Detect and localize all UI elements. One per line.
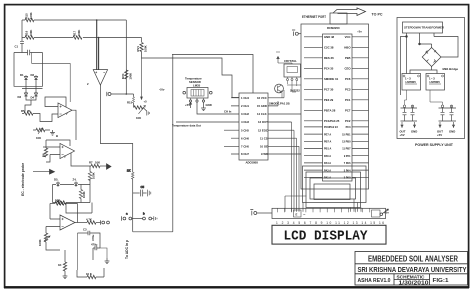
resistor R5 (U2 input) [22, 113, 24, 115]
svg-text:10 OE: 10 OE [260, 145, 268, 149]
svg-text:R15: R15 [25, 13, 29, 19]
svg-text:470u: 470u [91, 234, 95, 241]
svg-text:PA1 A: PA1 A [324, 177, 331, 180]
wire right bus vertical [125, 20, 127, 94]
op-amp U3 [60, 144, 75, 159]
svg-text:PC0/PA2 23: PC0/PA2 23 [324, 126, 338, 129]
svg-text:4 CH3: 4 CH3 [241, 120, 249, 124]
ground G3 [106, 258, 108, 261]
svg-text:E: E [296, 213, 298, 217]
bridge rectifier BR1 [422, 48, 441, 67]
svg-text:100K: 100K [38, 239, 42, 246]
svg-text:2K: 2K [27, 109, 31, 113]
regulator VR1 [402, 74, 421, 91]
svg-text:15 PB1: 15 PB1 [342, 133, 351, 136]
svg-text:13 PB0: 13 PB0 [342, 141, 351, 144]
svg-text:Z4: Z4 [73, 178, 77, 182]
svg-text:C2C 38: C2C 38 [324, 46, 334, 50]
wire left big bus [125, 19, 127, 21]
svg-text:To ADC In p: To ADC In p [125, 240, 129, 259]
power supply unit box [397, 18, 465, 139]
wire U4 inputs [46, 219, 60, 227]
bottom rail with resistor R10 [53, 202, 91, 204]
svg-text:D4: D4 [31, 96, 35, 100]
op-amp U2 [58, 103, 72, 118]
wire U3 output down [71, 153, 91, 166]
svg-text:13 OUT: 13 OUT [258, 120, 268, 124]
temp sensor LM35 body [187, 88, 208, 99]
bus loop 3 [310, 178, 356, 199]
svg-text:100K: 100K [129, 73, 133, 80]
strip ticks [278, 208, 370, 212]
svg-text:PB7 A: PB7 A [324, 141, 331, 144]
svg-text:C5: C5 [141, 185, 145, 189]
GND at LM35 [203, 102, 205, 108]
svg-text:R6: R6 [42, 153, 46, 157]
svg-text:10 K: 10 K [86, 272, 92, 276]
svg-text:R5: R5 [21, 109, 25, 113]
wire probe vertical [21, 20, 23, 41]
svg-text:PC7 30: PC7 30 [324, 88, 334, 92]
wire top row to right bus [22, 19, 126, 21]
resistor R7 [91, 164, 100, 167]
EC probe arrow [33, 171, 50, 173]
svg-text:ADC0808: ADC0808 [246, 161, 259, 165]
svg-text:+5V: +5V [437, 133, 442, 137]
svg-text:3 CH2: 3 CH2 [241, 112, 249, 116]
svg-text:4.7K: 4.7K [86, 218, 92, 222]
zener Z1 [75, 182, 78, 187]
resistor R17 (vertical in column) [131, 172, 134, 179]
svg-text:1 2 3 4 5 6 7 8 9 10 11 12 13: 1 2 3 4 5 6 7 8 9 10 11 12 13 14 15 16 [276, 221, 384, 225]
ADC left stubs [224, 98, 239, 154]
svg-text:7 CH0: 7 CH0 [241, 145, 249, 149]
RCM2200 module box [301, 24, 369, 189]
svg-text:100K: 100K [29, 30, 33, 37]
svg-text:8 CH7: 8 CH7 [241, 152, 249, 156]
svg-text:PE7 A: PE7 A [324, 133, 331, 136]
svg-text:SCHEMATIC: SCHEMATIC [397, 275, 426, 280]
svg-text:1K: 1K [58, 263, 62, 267]
svg-text:100K: 100K [82, 191, 86, 198]
svg-text:2: 2 [87, 82, 89, 86]
capacitor C3 [78, 232, 89, 234]
resistor R13 (1K vertical) [64, 250, 66, 262]
+5V arrow at LM35 [189, 102, 191, 108]
svg-text:RES 36: RES 36 [324, 56, 334, 60]
svg-text:5: 5 [64, 155, 66, 159]
svg-text:+5: +5 [144, 100, 148, 104]
svg-text:PE3 29: PE3 29 [324, 98, 334, 102]
svg-text:R16: R16 [25, 30, 29, 36]
svg-text:PA3 A: PA3 A [324, 169, 331, 172]
svg-text:10K: 10K [136, 116, 141, 120]
svg-text:LCD DISPLAY: LCD DISPLAY [284, 229, 369, 244]
svg-text:POWER SUPPLY UNIT: POWER SUPPLY UNIT [415, 143, 454, 147]
svg-text:⌐5v: ⌐5v [357, 30, 362, 34]
wire step down [66, 203, 92, 214]
svg-text:GND: GND [411, 130, 417, 134]
svg-text:100K: 100K [29, 12, 33, 19]
capacitor C1 [20, 41, 24, 43]
resistor R3 (second row right) [73, 36, 82, 39]
svg-text:D5: D5 [54, 178, 58, 182]
ground G2 [52, 130, 54, 133]
wire U2 feedback [45, 97, 66, 107]
svg-text:11 CS: 11 CS [260, 136, 268, 140]
svg-text:2 CH1: 2 CH1 [241, 104, 249, 108]
header pin stubs right [352, 37, 369, 178]
title block row3 dividers [394, 274, 430, 285]
connector J2 [100, 220, 102, 224]
svg-text:PB1 A: PB1 A [324, 148, 331, 151]
TO PC arrow [333, 8, 366, 16]
wire U2 output [72, 110, 76, 140]
svg-text:ETHERNET PORT: ETHERNET PORT [302, 15, 327, 19]
stepdown transformer box [403, 22, 443, 33]
wire bridge mid [22, 81, 43, 93]
diode D3 [24, 92, 27, 97]
svg-text:a: a [126, 212, 128, 216]
svg-text:1 CH4: 1 CH4 [241, 96, 249, 100]
svg-text:1K: 1K [127, 169, 131, 173]
svg-text:16 VCC: 16 VCC [257, 96, 267, 100]
op-amp U1 (pointing down) [93, 70, 107, 85]
svg-text:PB5: PB5 [345, 56, 351, 60]
svg-text:RV4: RV4 [121, 73, 125, 79]
probe box [14, 53, 43, 87]
svg-text:5 PA4: 5 PA4 [344, 169, 351, 172]
resistor R14 (10K bottom) [77, 270, 87, 277]
svg-text:PB7A 28: PB7A 28 [324, 109, 336, 113]
resistor R1 (top row) [25, 18, 34, 21]
junction dot bus tap [126, 93, 128, 95]
svg-text:PA4 A: PA4 A [324, 162, 331, 165]
svg-text:100K: 100K [92, 172, 96, 179]
wire LM35 out to ADC [197, 102, 239, 114]
svg-text:PC3: PC3 [345, 88, 351, 92]
svg-text:PC3: PC3 [346, 126, 351, 129]
svg-text:PC4 35: PC4 35 [324, 67, 334, 71]
svg-text:+5V: +5V [185, 103, 190, 107]
svg-text:D1: D1 [20, 73, 24, 77]
header pin stubs left [304, 37, 323, 178]
svg-text:6 CH6: 6 CH6 [241, 136, 249, 140]
ground G4 [63, 276, 68, 279]
svg-text:5 CH5: 5 CH5 [241, 128, 249, 132]
wire temperature data out [176, 121, 239, 123]
svg-text:2N2222: 2N2222 [290, 89, 300, 93]
resistor R9 (pull down) [79, 190, 82, 199]
wire R5 to U2 [33, 114, 58, 122]
bus risers left [285, 196, 307, 212]
svg-text:RV1: RV1 [136, 46, 140, 52]
svg-text:GND 48: GND 48 [324, 35, 335, 39]
bus risers right [351, 199, 362, 212]
wire box internal tap [32, 53, 71, 103]
ground G1 (rotated right) [147, 111, 150, 116]
resistor R6 (feedback) [44, 148, 47, 157]
svg-text:SMODE 31: SMODE 31 [324, 77, 339, 81]
svg-text:10K: 10K [36, 136, 41, 140]
svg-text:9 WR: 9 WR [261, 152, 268, 156]
svg-text:100K: 100K [144, 45, 148, 52]
junction dot row1 tap [96, 19, 98, 21]
wire U4 output [75, 222, 87, 224]
resistor RV4 (vertical on bus) [125, 70, 128, 79]
regulator VR2 [426, 74, 445, 91]
svg-text:PC6: PC6 [345, 77, 351, 81]
title block outer [355, 252, 468, 286]
svg-text:GND: GND [449, 130, 455, 134]
svg-text:MB1 Bridge: MB1 Bridge [443, 67, 459, 71]
+5v arrow LCD right [380, 213, 383, 216]
svg-text:100K: 100K [77, 30, 81, 37]
crystal oscillator box [284, 64, 301, 77]
diode D5 [57, 182, 60, 187]
svg-text:⊹5v: ⊹5v [159, 88, 165, 92]
+5 connector LCD left [250, 210, 253, 216]
svg-text:ASHA REV1.0: ASHA REV1.0 [358, 278, 391, 284]
bus loop 2 [306, 172, 361, 208]
svg-text:9 PF1: 9 PF1 [344, 155, 351, 158]
+5 connector module left [292, 30, 295, 36]
LCD DISPLAY box [272, 225, 386, 244]
svg-text:b: b [143, 212, 145, 216]
cap bank 2 [439, 108, 457, 121]
svg-text:C3: C3 [83, 228, 87, 232]
resistor R11 (U4 feedback) [50, 203, 55, 205]
wire bridge bottom [25, 97, 36, 111]
svg-text:10K: 10K [95, 161, 100, 165]
svg-text:D3: D3 [18, 95, 22, 99]
svg-text:SMODE.PA1 2B: SMODE.PA1 2B [269, 102, 290, 106]
wire cap to box [21, 43, 23, 52]
svg-text:LM7805: LM7805 [406, 80, 417, 84]
svg-text:11 PB7: 11 PB7 [342, 148, 351, 151]
svg-text:EC - electrode probe: EC - electrode probe [21, 163, 25, 196]
svg-text:12 EOC: 12 EOC [258, 128, 268, 132]
svg-text:HBO: HBO [344, 46, 351, 50]
svg-text:+5V: +5V [400, 133, 405, 137]
resistor R15 (vertical) [133, 94, 135, 97]
+5 down arrow terminal [140, 97, 142, 100]
potentiometer P3 [45, 227, 47, 234]
diode D1 [24, 75, 27, 80]
potentiometer P2 [36, 128, 45, 131]
wire diode net right vertical [89, 166, 91, 203]
op-amp U4 [60, 215, 75, 230]
enclosure box left [133, 55, 173, 232]
svg-text:7 PA6: 7 PA6 [344, 162, 351, 165]
svg-text:3 PA0: 3 PA0 [344, 177, 351, 180]
push button S2 [143, 217, 146, 220]
+5 arrow crystal [276, 52, 280, 63]
svg-text:PC1/PA3 25: PC1/PA3 25 [324, 119, 340, 123]
svg-text:10K: 10K [55, 199, 60, 203]
svg-text:LM7805: LM7805 [430, 80, 441, 84]
resistor R12 [87, 221, 96, 224]
svg-text:GND: GND [206, 103, 212, 107]
wire U3 inputs [43, 147, 60, 162]
wire +5 feed down [141, 58, 143, 97]
LCD pin strip [272, 208, 386, 218]
svg-text:CRYSTAL: CRYSTAL [284, 59, 297, 63]
svg-text:B: B [56, 134, 58, 138]
capacitor C2 (series in box top) [28, 50, 30, 56]
border frame bottom emphasis [4, 286, 469, 288]
ADC U5 box [239, 93, 268, 160]
svg-text:SRI KRISHNA DEVARAYA UNIVERSIT: SRI KRISHNA DEVARAYA UNIVERSITY [358, 267, 467, 274]
arrow out [100, 165, 107, 167]
svg-text:PC7: PC7 [345, 109, 351, 113]
svg-text:470u: 470u [91, 243, 98, 247]
capacitor C4 [93, 247, 95, 249]
wire J1 to node [111, 93, 134, 95]
title block row lines [355, 264, 468, 274]
wire input taps to U1 [96, 20, 98, 70]
svg-text:PA6 A: PA6 A [324, 155, 331, 158]
svg-text:TO PC: TO PC [372, 12, 384, 16]
resistor R16 (vertical 100K) [140, 43, 143, 52]
bus loop 1 [303, 166, 367, 203]
svg-text:CEO: CEO [344, 67, 351, 71]
diode D2 [34, 75, 37, 80]
svg-text:C1: C1 [15, 45, 19, 49]
LM35 pins [191, 98, 204, 100]
svg-text:∼: ∼ [303, 213, 306, 217]
svg-text:EMBEDDEED SOIL ANALYSER: EMBEDDEED SOIL ANALYSER [368, 254, 458, 263]
svg-text:R15: R15 [127, 101, 133, 105]
svg-text:STEPDOWN TRANSFORMER: STEPDOWN TRANSFORMER [404, 26, 445, 30]
resistor R8 (vertical) [88, 172, 91, 181]
bridge wires [410, 44, 437, 74]
wire U1 output down to box column [100, 85, 132, 172]
svg-text:LM35: LM35 [193, 84, 201, 88]
ethernet port box [330, 13, 347, 24]
svg-text:R7: R7 [89, 161, 93, 165]
svg-text:R17: R17 [73, 30, 77, 36]
push button S1 [120, 216, 122, 221]
svg-text:PC1: PC1 [345, 98, 351, 102]
svg-text:VCC: VCC [345, 35, 351, 39]
transistor Q1 [275, 84, 284, 93]
svg-text:D2: D2 [31, 73, 35, 77]
svg-text:RCM2200: RCM2200 [327, 26, 340, 30]
junction dot row2 tap [98, 37, 100, 39]
svg-text:+5v: +5v [384, 211, 389, 215]
svg-text:FIG:1: FIG:1 [433, 278, 449, 284]
ADC right stubs [268, 98, 301, 154]
svg-text:CH In: CH In [224, 110, 232, 114]
svg-text:Temperature data Out: Temperature data Out [172, 123, 201, 127]
capacitor C5 + ground [133, 192, 140, 194]
transformer output wires [407, 33, 435, 74]
diode D4 [34, 92, 37, 97]
resistor R2 (second row) [25, 36, 34, 39]
connector J1 [106, 92, 108, 96]
bus loop 4 [314, 184, 350, 200]
pin header box [323, 34, 353, 181]
svg-text:15 ADD: 15 ADD [257, 104, 267, 108]
resistor R18 with potentiometer arrow P1 [134, 106, 143, 109]
svg-text:PC2: PC2 [345, 119, 351, 123]
cap bank 1 [401, 108, 418, 121]
wire second row [22, 37, 142, 39]
diode rail [53, 185, 91, 203]
svg-text:1/30/2010: 1/30/2010 [399, 281, 429, 287]
svg-text:14 CLK: 14 CLK [257, 112, 267, 116]
